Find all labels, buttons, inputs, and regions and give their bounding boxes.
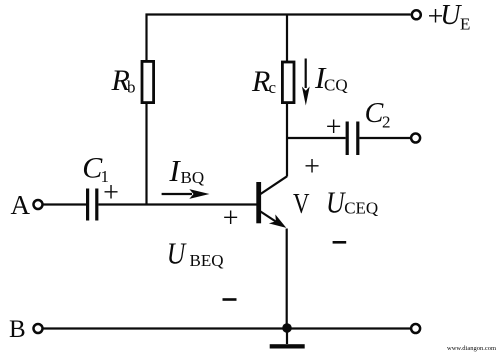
label IBQ bbox=[168, 153, 204, 188]
wire junction to ground bbox=[286, 328, 288, 344]
svg-text:CQ: CQ bbox=[324, 76, 348, 95]
label C1 bbox=[82, 152, 109, 187]
svg-text:BQ: BQ bbox=[181, 168, 205, 187]
svg-text:b: b bbox=[127, 78, 136, 97]
wire base from C1 to transistor base bbox=[98, 203, 256, 205]
svg-text:V: V bbox=[293, 188, 310, 220]
capacitor C1 bbox=[88, 189, 97, 221]
svg-text:c: c bbox=[269, 78, 277, 97]
output terminal right of C2 bbox=[411, 134, 420, 143]
wire Rc branch vertical lower segment down to collector corner bbox=[286, 104, 288, 177]
label C2 bbox=[365, 98, 391, 132]
label +UE bbox=[428, 0, 471, 34]
wire top rail from Rb branch to +UE terminal bbox=[146, 13, 411, 15]
wire C2 right plate to output terminal bbox=[360, 137, 411, 139]
wire Rc branch vertical upper segment bbox=[286, 14, 288, 62]
svg-text:www.diangon.com: www.diangon.com bbox=[447, 345, 496, 352]
svg-text:+: + bbox=[304, 152, 320, 183]
svg-text:I: I bbox=[168, 153, 181, 188]
wire collector junction to C2 left plate bbox=[286, 137, 346, 139]
power terminal +UE bbox=[412, 10, 421, 19]
ground bbox=[270, 344, 305, 348]
wire input from A to capacitor C1 bbox=[43, 203, 86, 205]
label Rb bbox=[111, 64, 136, 97]
svg-text:R: R bbox=[251, 65, 270, 98]
label ICQ bbox=[314, 60, 348, 95]
svg-text:CEQ: CEQ bbox=[344, 198, 378, 217]
wire Rb branch vertical lower segment down to base wire bbox=[145, 104, 147, 205]
svg-text:2: 2 bbox=[382, 113, 391, 132]
svg-text:U: U bbox=[440, 0, 462, 31]
current arrow ICQ bbox=[302, 59, 310, 106]
label UBEQ bbox=[167, 236, 224, 271]
resistor Rc bbox=[282, 62, 294, 103]
svg-text:A: A bbox=[11, 190, 31, 220]
transistor V base bar bbox=[256, 182, 261, 223]
svg-text:+: + bbox=[223, 203, 239, 234]
capacitor C2 bbox=[347, 122, 358, 156]
junction node at emitter and bottom rail bbox=[282, 323, 292, 333]
label Rc bbox=[251, 65, 277, 98]
minus polarity of UCEQ bbox=[333, 241, 347, 244]
wire emitter vertical down to bottom rail bbox=[286, 229, 288, 329]
terminal B bbox=[34, 324, 43, 333]
svg-text:+: + bbox=[326, 112, 342, 143]
svg-text:B: B bbox=[9, 316, 26, 343]
resistor Rb bbox=[142, 61, 154, 102]
svg-text:BEQ: BEQ bbox=[190, 251, 224, 270]
wire Rb branch vertical upper segment bbox=[145, 14, 147, 61]
svg-text:E: E bbox=[460, 15, 470, 34]
wire bottom rail from B to right terminal bbox=[43, 327, 411, 329]
output terminal bottom right bbox=[411, 324, 420, 333]
minus polarity of UBEQ bbox=[223, 298, 237, 301]
transistor V emitter lead with arrow bbox=[261, 212, 287, 228]
svg-text:U: U bbox=[167, 236, 188, 271]
terminal A bbox=[34, 200, 43, 209]
transistor V collector lead bbox=[261, 176, 288, 194]
svg-text:C: C bbox=[365, 98, 384, 129]
label UCEQ bbox=[326, 184, 378, 219]
current arrow IBQ bbox=[162, 189, 210, 199]
